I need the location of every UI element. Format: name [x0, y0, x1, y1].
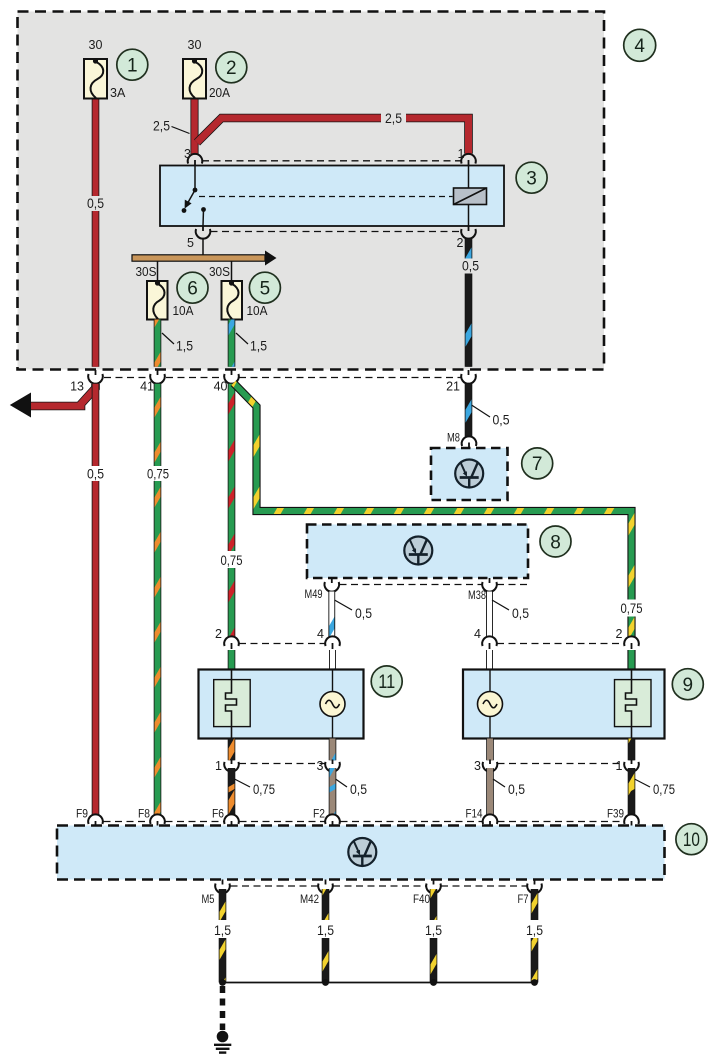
wire black/yellow pin1 to F39: [628, 768, 636, 815]
svg-text:4: 4: [634, 36, 645, 57]
svg-text:2: 2: [616, 627, 623, 641]
circled 2: [216, 52, 247, 83]
M row dashed link: [340, 584, 529, 586]
component box 10: [57, 826, 665, 880]
svg-text:0,5: 0,5: [508, 781, 525, 797]
circled 9: [672, 669, 703, 700]
svg-text:40: 40: [214, 380, 228, 394]
svg-text:F8: F8: [138, 809, 150, 821]
svg-text:F6: F6: [212, 809, 224, 821]
svg-text:0,5: 0,5: [350, 781, 367, 797]
svg-text:2: 2: [457, 236, 464, 250]
svg-text:1,5: 1,5: [425, 922, 442, 938]
junction dot F40 wire: [430, 979, 437, 986]
mounting block box 4: [18, 12, 605, 370]
relay switch: [182, 166, 206, 226]
fuse F2: [183, 58, 206, 98]
svg-text:3: 3: [184, 147, 191, 161]
svg-text:2,5: 2,5: [153, 118, 170, 134]
circled 1: [117, 49, 148, 80]
svg-text:5: 5: [187, 236, 194, 250]
wire stub tan below box 9 pin3: [486, 739, 494, 761]
wire white M38 to pin4: [486, 592, 493, 637]
label 1,5 callout (fuse 5): [236, 333, 267, 354]
connector pin 1 (box 11): [224, 760, 239, 772]
svg-text:1: 1: [458, 147, 465, 161]
wire black/blue pin 21 to M8: [465, 384, 473, 437]
svg-text:F9: F9: [76, 809, 88, 821]
relay box 3: [160, 166, 504, 227]
connector row dashed link: [104, 377, 461, 379]
connector pin 1 (box 9): [624, 760, 639, 772]
label 0,75 callout F39 wire: [635, 779, 676, 797]
wire stub green/red into box 11: [228, 650, 236, 670]
svg-text:9: 9: [683, 675, 694, 696]
svg-text:1: 1: [215, 759, 222, 773]
svg-text:1,5: 1,5: [176, 338, 193, 354]
connector M8: [462, 436, 477, 448]
connector M49: [325, 578, 340, 592]
wire fuse F6 down green/orange 1,5: [154, 320, 162, 367]
bus bar 30S: [132, 251, 277, 266]
wire green/yellow pin40 branch to pin2 of 9: [234, 383, 632, 637]
svg-text:2,5: 2,5: [385, 110, 402, 126]
wire bus bar to fuse F5: [231, 261, 233, 282]
circled 6: [177, 272, 208, 303]
wire tan/blue pin3 to F2: [329, 768, 337, 815]
label 0,75 callout F6 wire: [235, 779, 276, 797]
pin 2-4 dashed links: [239, 643, 624, 645]
connector F39: [624, 814, 639, 827]
svg-text:5: 5: [260, 279, 271, 300]
wire stub tan/blue below box 11 pin3: [329, 739, 337, 761]
svg-text:0,5: 0,5: [355, 605, 372, 621]
svg-text:0,5: 0,5: [512, 605, 529, 621]
svg-text:0,75: 0,75: [653, 781, 675, 797]
wire: fuse F1 output red 0,5: [92, 98, 100, 367]
ground terminal dot: [217, 1031, 229, 1043]
svg-text:1: 1: [127, 56, 138, 77]
wire stub black/orange below box 11 pin1: [228, 739, 236, 761]
connector pin 41: [150, 370, 165, 384]
svg-text:F14: F14: [466, 809, 484, 821]
component box 8: [307, 525, 528, 579]
svg-text:F39: F39: [607, 809, 624, 821]
F row dashed link: [104, 821, 625, 823]
wire stub white into box 9: [486, 650, 493, 670]
circled 3: [516, 162, 547, 193]
circled 7: [522, 448, 553, 479]
svg-text:10: 10: [683, 830, 700, 851]
svg-text:6: 6: [187, 279, 198, 300]
svg-text:F7: F7: [518, 894, 529, 906]
svg-text:20A: 20A: [209, 86, 231, 100]
pin 1-3 dashed links: [239, 763, 624, 765]
svg-text:11: 11: [378, 672, 395, 693]
circled 8: [540, 526, 571, 557]
wire fuse F5 down green/blue 1,5: [228, 320, 236, 367]
label 0,5 callout M49 wire: [335, 600, 373, 621]
wire white/blue M49 to pin4: [328, 592, 335, 637]
relay top dashed link: [202, 160, 461, 162]
connector F9: [88, 814, 103, 827]
ground bus wire: [223, 982, 535, 984]
circled 4: [624, 29, 656, 61]
M row dashed link: [231, 885, 528, 887]
wire black/yellow M42 to ground bus: [322, 889, 330, 983]
svg-text:1,5: 1,5: [526, 922, 543, 938]
svg-text:0,75: 0,75: [621, 600, 643, 616]
svg-text:0,5: 0,5: [87, 195, 104, 211]
component box 11: [199, 670, 364, 739]
svg-text:21: 21: [446, 380, 460, 394]
connector M42: [318, 880, 333, 894]
component box 7: [431, 448, 508, 500]
fuse F5: [222, 280, 243, 319]
relay bottom dashed link: [211, 231, 462, 233]
transistor symbol 8: [404, 537, 432, 565]
wire black/yellow M5 to ground bus: [219, 889, 227, 983]
connector pin 4 (box 11): [325, 636, 340, 649]
circled 5: [249, 272, 280, 303]
connector F14: [483, 814, 498, 827]
svg-text:10A: 10A: [247, 304, 269, 318]
svg-text:3: 3: [526, 169, 537, 190]
svg-text:7: 7: [532, 454, 543, 475]
transistor symbol 10: [348, 838, 376, 866]
svg-text:0,75: 0,75: [253, 781, 275, 797]
svg-text:3: 3: [474, 759, 481, 773]
label 0,5 callout F14 wire: [493, 779, 525, 797]
svg-text:2: 2: [226, 58, 237, 79]
connector pin 2 (box 11): [224, 636, 239, 649]
svg-text:1: 1: [616, 759, 623, 773]
component box 9: [463, 670, 665, 739]
wire red feed out with arrow: [10, 384, 96, 418]
dashed ground lead: [220, 986, 226, 1030]
wire: fuse F2 output red 2,5 down to relay pin 3: [190, 98, 198, 154]
svg-text:3A: 3A: [110, 86, 126, 100]
relay pin 5 connector: [196, 226, 211, 239]
connector pin 40: [224, 370, 239, 384]
svg-text:4: 4: [474, 627, 481, 641]
wire band details: [229, 784, 635, 793]
connector pin 21: [461, 370, 476, 384]
svg-text:30: 30: [188, 38, 202, 52]
ground symbol: [214, 1045, 231, 1053]
svg-text:0,5: 0,5: [87, 466, 104, 482]
connector F7: [527, 880, 542, 894]
connector pin 4 (box 9): [482, 636, 497, 649]
connector pin 2 (box 9): [624, 636, 639, 649]
wire tan pin3 to F14: [486, 768, 494, 815]
glow plug element 11: [214, 670, 251, 739]
svg-text:0,75: 0,75: [221, 552, 243, 568]
wire red pin13 down to F9: [92, 384, 100, 815]
label 0,5 callout M38 wire: [492, 600, 529, 621]
junction dot M42 wire: [322, 979, 329, 986]
connector M5: [215, 880, 230, 894]
svg-text:30S: 30S: [209, 265, 230, 279]
svg-text:1,5: 1,5: [250, 338, 267, 354]
svg-text:0,75: 0,75: [147, 466, 169, 482]
svg-text:3: 3: [317, 759, 324, 773]
wire relay pin5 to bus bar: [202, 239, 204, 255]
connector pin 13: [88, 370, 103, 384]
fuse F6: [147, 280, 168, 319]
label 2,5 callout: [153, 118, 190, 134]
wire green/orange pin41 down to F8: [154, 384, 162, 815]
connector M38: [482, 578, 497, 592]
svg-text:10A: 10A: [173, 304, 195, 318]
svg-text:1,5: 1,5: [317, 922, 334, 938]
relay pin 2 connector: [461, 226, 476, 239]
AC element 9: [478, 670, 503, 739]
svg-text:M42: M42: [300, 894, 319, 906]
svg-text:30: 30: [89, 38, 103, 52]
connector F40: [426, 880, 441, 894]
wire black/yellow F40 to ground bus: [430, 889, 438, 983]
junction dot F7 wire: [531, 979, 538, 986]
svg-text:41: 41: [140, 380, 154, 394]
wire green/red pin40 down to pin2 of 11: [228, 384, 236, 637]
relay pin 3 connector: [188, 154, 203, 166]
label 1,5 callout (fuse 6): [162, 333, 193, 354]
connector F2: [325, 814, 340, 827]
glow plug element 9: [615, 670, 652, 739]
svg-text:30S: 30S: [136, 265, 157, 279]
wire stub green/yellow into box 9: [627, 650, 635, 670]
connector F6: [224, 814, 239, 827]
svg-text:M49: M49: [305, 589, 323, 601]
junction dot M5 wire: [219, 979, 226, 986]
svg-text:0,5: 0,5: [493, 412, 510, 428]
wire black/blue relay pin2 to pin 21: [465, 239, 473, 367]
svg-text:F2: F2: [313, 809, 325, 821]
svg-text:M38: M38: [468, 590, 486, 602]
svg-text:M5: M5: [202, 894, 215, 906]
connector F8: [150, 814, 165, 827]
wire black/orange pin1 to F6: [228, 768, 236, 815]
svg-text:2: 2: [215, 627, 222, 641]
circled 10: [676, 824, 707, 855]
wire stub black/yellow below box 9 pin1: [628, 739, 636, 761]
relay coil: [454, 166, 487, 226]
wire bus bar to fuse F6: [157, 261, 159, 282]
svg-text:8: 8: [550, 532, 561, 553]
connector pin 3 (box 9): [483, 760, 498, 772]
svg-text:M8: M8: [447, 433, 460, 445]
transistor symbol 7: [455, 460, 483, 488]
relay pin 1 connector: [461, 154, 476, 166]
connector pin 3 (box 11): [325, 760, 340, 772]
svg-text:13: 13: [70, 380, 84, 394]
wire: red 2,5 branch to relay pin 1: [197, 118, 469, 154]
circled 11: [371, 666, 402, 697]
svg-text:1,5: 1,5: [214, 922, 231, 938]
relay internal dashed: [199, 196, 453, 198]
wire black/yellow F7 to ground bus: [531, 889, 539, 983]
label 0,5 callout M8 wire: [472, 405, 510, 428]
svg-text:4: 4: [317, 627, 324, 641]
svg-text:0,5: 0,5: [462, 258, 479, 274]
svg-text:F40: F40: [413, 894, 430, 906]
AC element 11: [320, 670, 345, 739]
label 0,5 callout F2 wire: [336, 779, 368, 797]
fuse F1 (30A circuit): [84, 58, 107, 98]
wire stub white/blue into box 11: [329, 650, 336, 670]
